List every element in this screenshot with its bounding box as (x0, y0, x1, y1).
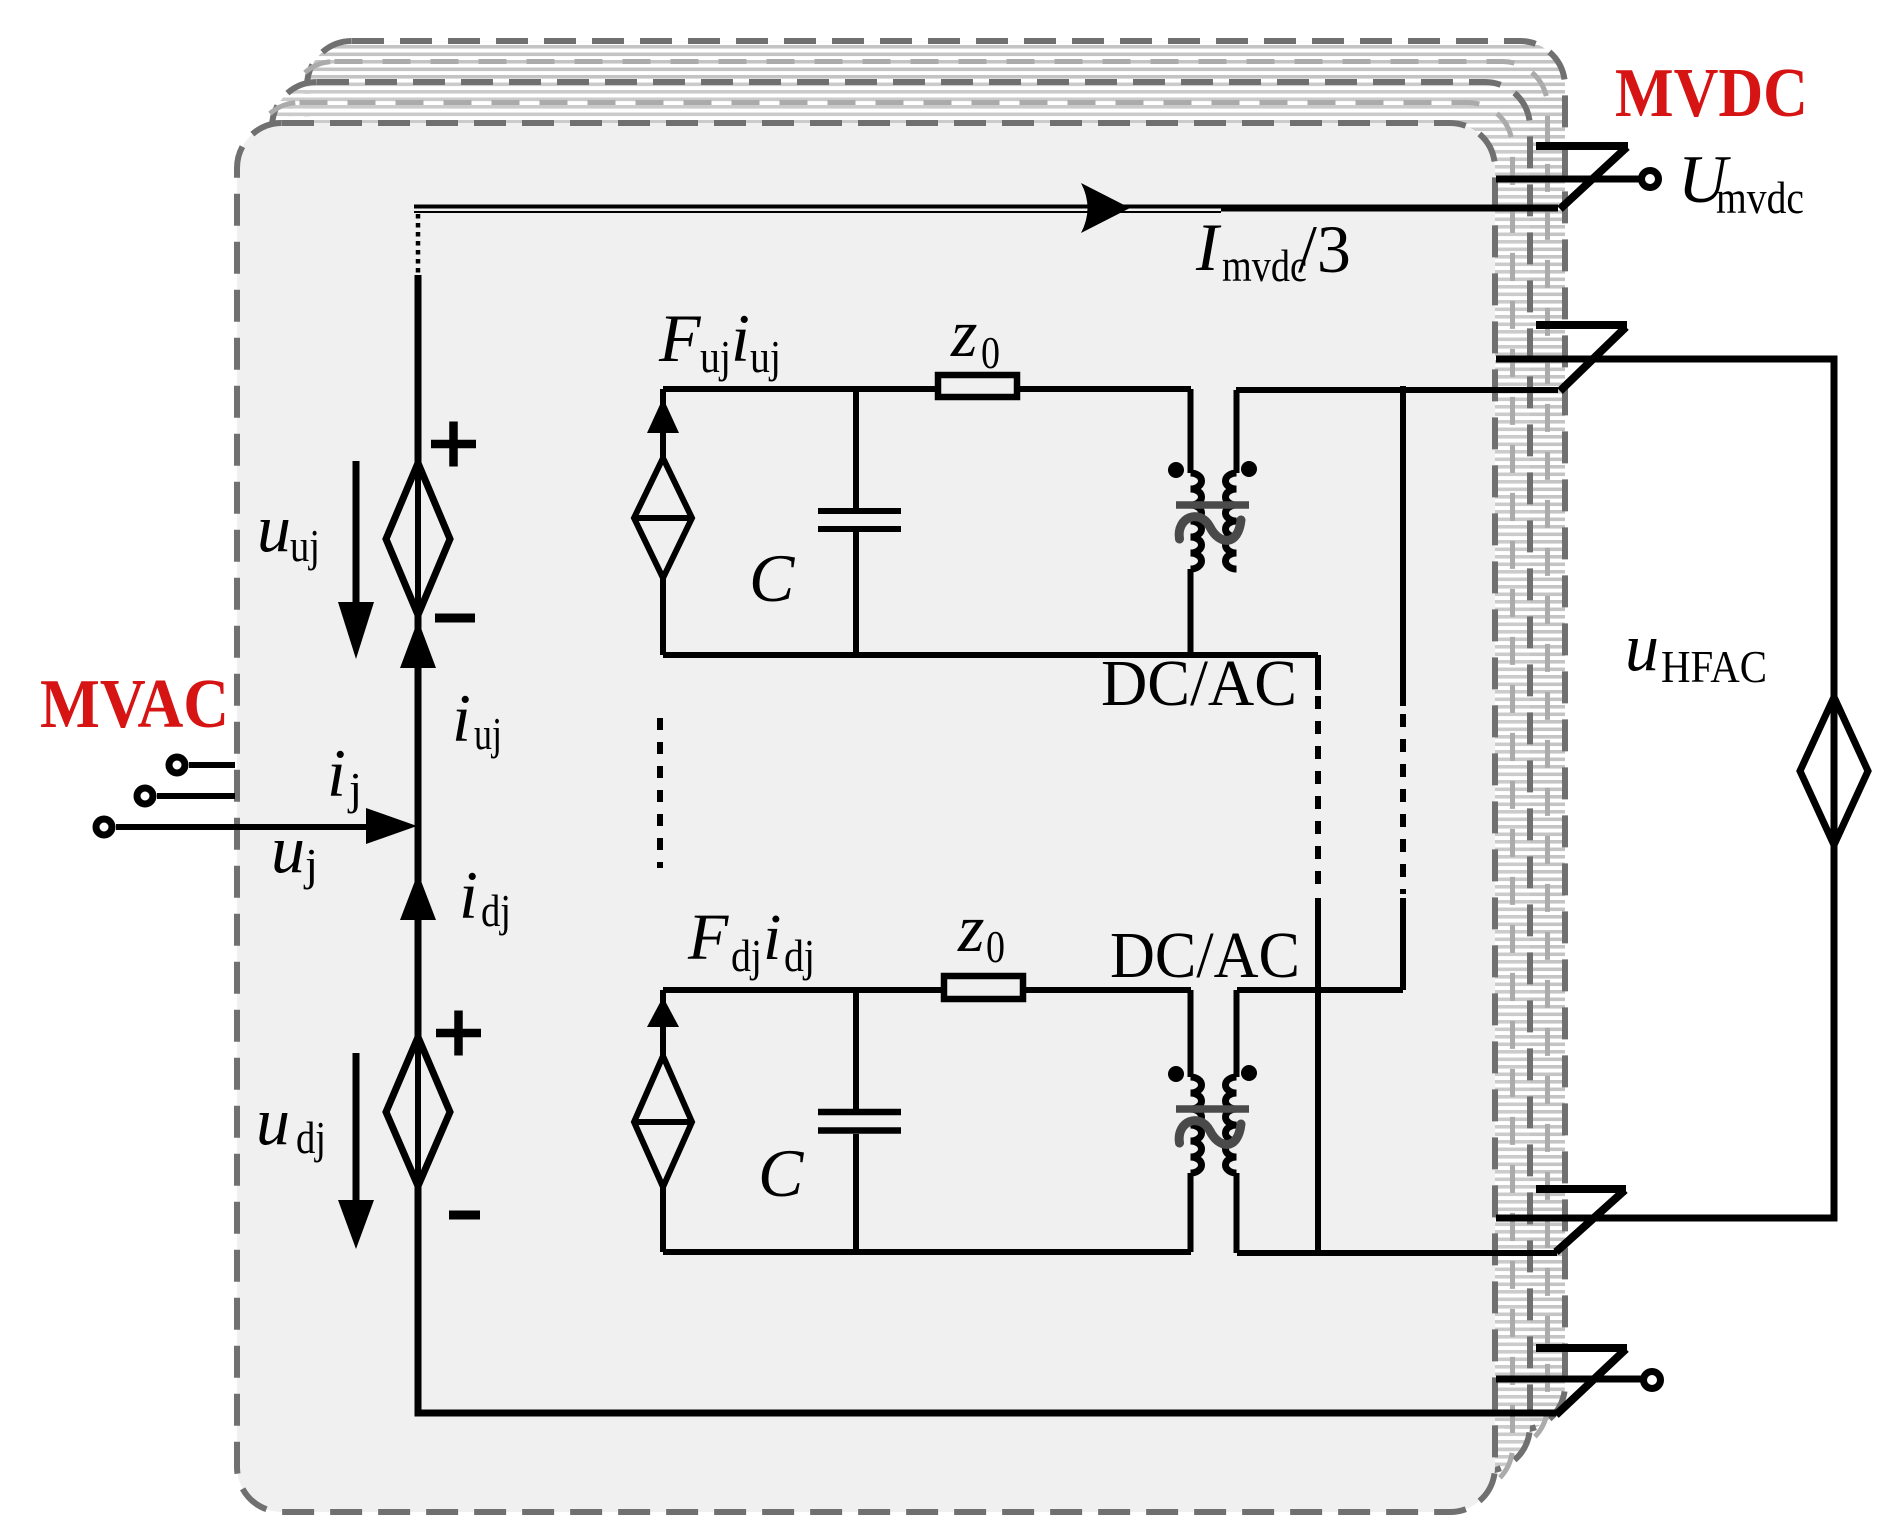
svg-text:/3: /3 (1298, 211, 1351, 287)
svg-text:i: i (327, 735, 346, 811)
svg-text:MVAC: MVAC (40, 666, 229, 743)
svg-text:i: i (731, 300, 750, 376)
svg-text:uj: uj (700, 331, 731, 382)
svg-text:z: z (957, 890, 984, 966)
svg-text:dj: dj (296, 1112, 326, 1163)
svg-text:0: 0 (981, 327, 1000, 378)
svg-text:dj: dj (784, 930, 815, 981)
svg-text:I: I (1195, 209, 1222, 285)
svg-text:C: C (758, 1135, 804, 1211)
svg-text:u: u (271, 811, 305, 887)
svg-text:F: F (658, 300, 702, 376)
svg-text:HFAC: HFAC (1661, 641, 1767, 692)
svg-text:z: z (950, 295, 977, 371)
svg-text:mvdc: mvdc (1716, 172, 1804, 223)
svg-text:uj: uj (290, 520, 320, 571)
svg-text:j: j (347, 763, 362, 814)
svg-text:uj: uj (474, 708, 502, 759)
svg-text:dj: dj (481, 885, 511, 936)
svg-text:u: u (257, 490, 291, 566)
svg-text:0: 0 (986, 921, 1005, 972)
svg-text:F: F (687, 901, 729, 974)
svg-text:i: i (459, 857, 478, 933)
svg-text:uj: uj (750, 331, 781, 382)
svg-text:i: i (763, 901, 781, 974)
svg-text:C: C (749, 540, 795, 616)
svg-text:mvdc: mvdc (1222, 240, 1307, 291)
svg-text:u: u (1625, 609, 1659, 685)
svg-text:MVDC: MVDC (1615, 55, 1808, 132)
svg-text:DC/AC: DC/AC (1101, 647, 1297, 720)
svg-text:DC/AC: DC/AC (1110, 919, 1300, 992)
svg-text:i: i (452, 680, 471, 756)
svg-text:dj: dj (731, 930, 762, 981)
svg-text:u: u (256, 1083, 290, 1159)
svg-text:j: j (303, 839, 318, 890)
